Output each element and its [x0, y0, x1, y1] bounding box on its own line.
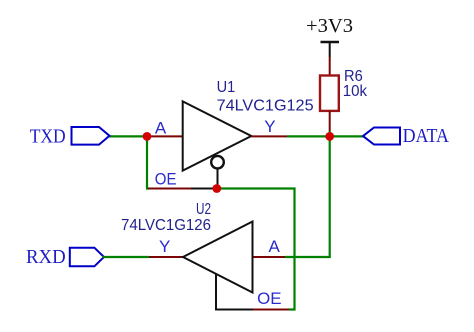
svg-text:Y: Y — [159, 237, 170, 256]
svg-text:Y: Y — [264, 117, 275, 136]
junction node OE — [212, 184, 221, 193]
svg-text:A: A — [269, 237, 281, 256]
pin OE of U1 horizontal — [148, 188, 191, 190]
pin A of U2 — [253, 256, 286, 258]
pin Y of U1 — [251, 135, 287, 137]
pin A of U1 — [147, 135, 183, 137]
port DATA — [363, 125, 449, 147]
svg-text:TXD: TXD — [30, 126, 66, 148]
pin Y of U2 — [149, 256, 183, 258]
svg-text:OE: OE — [155, 170, 177, 189]
port TXD — [30, 126, 110, 148]
junction node DATA — [325, 132, 334, 141]
wire TXD to node A — [108, 135, 147, 137]
resistor R6 — [320, 57, 339, 136]
power +3V3 — [306, 15, 353, 57]
svg-text:RXD: RXD — [26, 246, 66, 268]
svg-text:10k: 10k — [343, 83, 368, 100]
wire RXD to Y pin — [103, 256, 150, 258]
svg-text:U2: U2 — [196, 201, 211, 218]
op-amp U1 triangle 74LVC1G125 — [183, 101, 252, 188]
wire DATA node down — [285, 136, 330, 257]
svg-text:74LVC1G125: 74LVC1G125 — [217, 97, 314, 114]
svg-text:+3V3: +3V3 — [306, 15, 353, 37]
wire OE net right and down — [217, 189, 295, 310]
svg-text:A: A — [155, 118, 167, 137]
wire DATA node to port — [330, 135, 364, 137]
junction node A — [143, 132, 152, 141]
svg-text:74LVC1G126: 74LVC1G126 — [121, 217, 211, 234]
buffer U2 triangle 74LVC1G126 — [183, 222, 253, 310]
wire Y to DATA node — [287, 135, 330, 137]
wire node A down — [147, 136, 149, 188]
pin OE of U2 — [253, 309, 289, 311]
wire OE black segment — [191, 188, 217, 190]
svg-text:U1: U1 — [217, 79, 236, 96]
svg-text:OE: OE — [257, 289, 281, 308]
port RXD — [26, 246, 104, 268]
svg-text:DATA: DATA — [403, 125, 450, 147]
